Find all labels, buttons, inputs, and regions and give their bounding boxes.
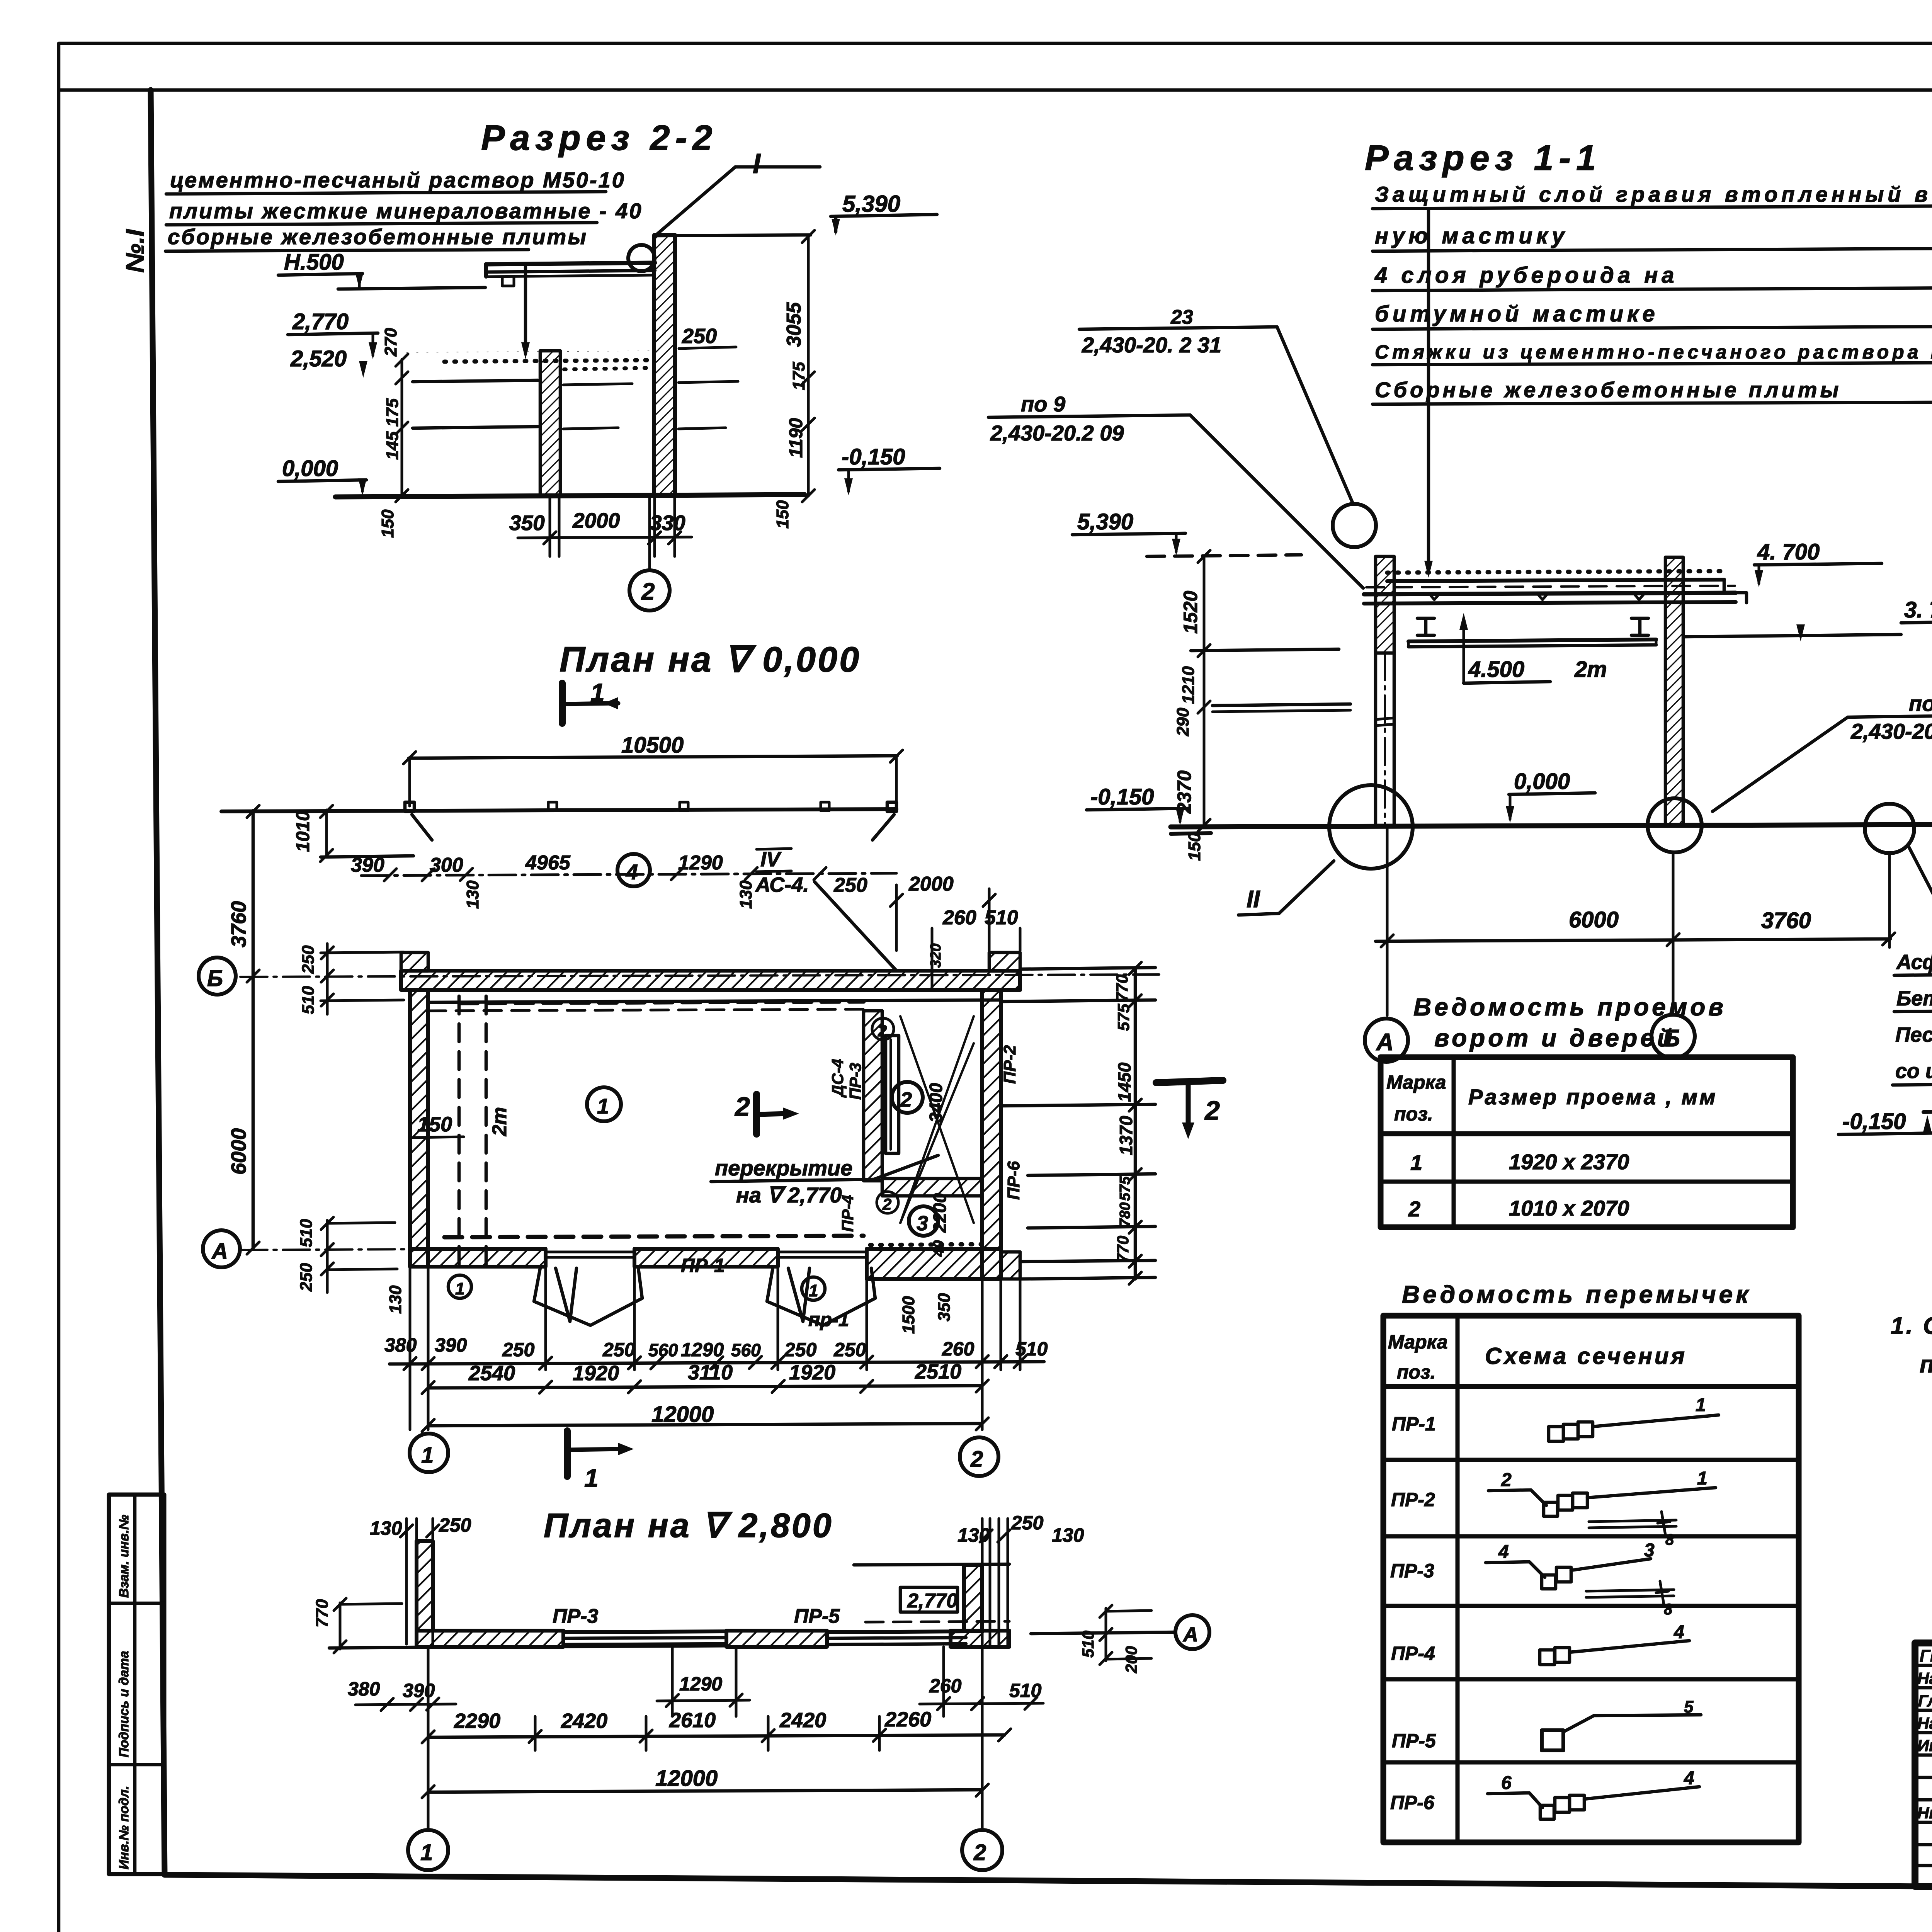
svg-text:390: 390 (435, 1334, 467, 1356)
svg-text:40: 40 (931, 1240, 947, 1257)
svg-text:Нач.гр.: Нач.гр. (1917, 1714, 1932, 1732)
section mark 1 bottom (567, 1431, 634, 1492)
roof slab sec11 (1364, 571, 1747, 604)
detail II elevation -0.150 (1838, 1109, 1932, 1134)
axis B dashdot (240, 975, 1159, 977)
right dim column sec22 (773, 230, 815, 529)
lintel row PR-1 (1392, 1395, 1719, 1441)
svg-text:3: 3 (1644, 1540, 1655, 1561)
elevation 3.702 (1685, 597, 1932, 641)
left dim column (378, 328, 408, 538)
svg-text:План на ∇ 0,000: План на ∇ 0,000 (560, 640, 861, 679)
axis bubble 1 plan0 (410, 1434, 448, 1472)
roof note L1 (1372, 182, 1932, 209)
axis drop lines (1387, 827, 1889, 1015)
svg-text:по 9: по 9 (1021, 392, 1065, 416)
svg-text:4: 4 (1673, 1622, 1684, 1643)
dim 1010 (293, 805, 413, 862)
svg-text:2610: 2610 (669, 1709, 716, 1732)
bottom dim row B (422, 1360, 988, 1394)
svg-text:Стяжки из цементно-песчаного р: Стяжки из цементно-песчаного раствора М5… (1375, 341, 1932, 363)
svg-text:2,770: 2,770 (292, 309, 349, 334)
svg-text:2000: 2000 (572, 509, 620, 532)
level 0.000 sec22 (278, 456, 367, 495)
svg-text:2: 2 (641, 578, 655, 605)
svg-text:5,390: 5,390 (1077, 509, 1133, 534)
left small dims B (299, 944, 404, 1014)
door cross marks (900, 1016, 974, 1223)
svg-text:770: 770 (1114, 1236, 1132, 1263)
lintel row PR-2 (1391, 1468, 1716, 1548)
insulation dotted band (406, 351, 652, 369)
svg-text:2: 2 (882, 1195, 891, 1213)
svg-text:6: 6 (1501, 1773, 1512, 1793)
svg-text:со щебнем: со щебнем (1895, 1060, 1932, 1083)
detail circle B (1648, 798, 1702, 852)
svg-text:2260: 2260 (884, 1708, 931, 1731)
detail circle II on ground (1329, 785, 1413, 869)
svg-text:1010: 1010 (293, 811, 313, 852)
svg-text:Разрез 2-2: Разрез 2-2 (481, 118, 718, 158)
svg-text:1: 1 (590, 678, 605, 707)
svg-text:на ∇ 2,770: на ∇ 2,770 (736, 1183, 842, 1207)
svg-text:12000: 12000 (655, 1766, 718, 1791)
right dim chain (1000, 962, 1141, 1284)
svg-text:Нач.отд: Нач.отд (1917, 1669, 1932, 1687)
left stamp strip (109, 1495, 164, 1874)
svg-text:Разрез 1-1: Разрез 1-1 (1365, 138, 1601, 178)
plan28 right corner (854, 1519, 1009, 1645)
svg-text:II: II (1247, 886, 1260, 913)
svg-text:ную мастику: ную мастику (1375, 223, 1568, 248)
right outer wall (982, 990, 1020, 1279)
svg-text:№.I: №.I (121, 229, 149, 273)
inner wall hatched (540, 351, 560, 496)
svg-text:2: 2 (878, 1022, 887, 1040)
door opening 1 (534, 1252, 642, 1325)
crane I-beams (1417, 618, 1648, 635)
elevation -0.150 sec22 (838, 444, 940, 495)
svg-text:130: 130 (463, 880, 482, 909)
bottom wall band seg1 (410, 1249, 546, 1267)
svg-text:1010 х 2070: 1010 х 2070 (1509, 1196, 1629, 1220)
svg-text:АС-4.: АС-4. (755, 873, 809, 896)
svg-text:4: 4 (1684, 1768, 1694, 1789)
level 2.520 (290, 346, 367, 378)
svg-text:по 7: по 7 (1909, 691, 1932, 716)
svg-text:Марка: Марка (1386, 1071, 1446, 1093)
svg-text:260: 260 (929, 1675, 962, 1697)
svg-text:350: 350 (509, 511, 545, 535)
svg-text:Н.500: Н.500 (284, 250, 344, 275)
roof note L6 (1372, 378, 1932, 404)
roof level line (657, 235, 811, 236)
svg-text:перекрытие: перекрытие (715, 1156, 852, 1180)
svg-text:Б: Б (207, 966, 223, 991)
svg-text:3400: 3400 (926, 1083, 946, 1122)
crane runway line (1408, 639, 1656, 647)
svg-text:10500: 10500 (621, 733, 684, 758)
top band line (59, 88, 1932, 92)
left dim column sec11 (1173, 550, 1210, 861)
svg-text:поз.: поз. (1397, 1361, 1436, 1383)
svg-text:1: 1 (1696, 1395, 1706, 1415)
svg-text:1: 1 (1410, 1150, 1422, 1175)
svg-text:-0,150: -0,150 (842, 444, 905, 469)
roofing note line 3 (165, 224, 588, 251)
lintel table lines (1383, 1316, 1799, 1842)
svg-text:130: 130 (736, 880, 755, 909)
plan28 dim 12000 (422, 1647, 988, 1830)
svg-text:Гл.арх.: Гл.арх. (1918, 1692, 1932, 1710)
callout po7 (1713, 691, 1932, 811)
left wall band (410, 990, 428, 1267)
svg-text:145 175: 145 175 (383, 398, 402, 460)
svg-text:Инж.Вк: Инж.Вк (1917, 1736, 1932, 1755)
elevation 0.000 sec11 (1506, 769, 1595, 823)
ground line sec22 (335, 495, 804, 497)
lintel row PR-4 (1391, 1622, 1689, 1665)
pos bubble 2b (877, 1192, 898, 1213)
openings table frame (1381, 1057, 1793, 1227)
svg-text:770: 770 (1113, 975, 1131, 1002)
top level line sec11 (1147, 555, 1301, 556)
svg-text:380: 380 (348, 1678, 380, 1700)
svg-text:4: 4 (1498, 1542, 1509, 1562)
roof note L2 (1372, 223, 1932, 251)
callout circle roof (1333, 504, 1376, 547)
svg-text:ПР-2: ПР-2 (1391, 1489, 1435, 1510)
callout I (656, 148, 820, 235)
svg-text:1290: 1290 (678, 852, 723, 874)
door opening 2 (767, 1252, 875, 1325)
roofing note line 2 (166, 199, 643, 225)
svg-text:ПР-3: ПР-3 (846, 1063, 864, 1100)
svg-text:250: 250 (297, 1263, 316, 1292)
svg-text:Ведомость проемов: Ведомость проемов (1413, 993, 1726, 1021)
plan28 dims row1 (348, 1647, 1043, 1716)
roof note L4 (1372, 301, 1932, 329)
parapet beam (486, 263, 655, 286)
insulation leader (521, 267, 530, 359)
roofing note line 1 (166, 168, 626, 194)
svg-text:3. 702: 3. 702 (1904, 597, 1932, 622)
svg-text:А: А (211, 1239, 228, 1264)
opening bubble 1a (448, 1275, 471, 1298)
roof note L5 (1372, 341, 1932, 365)
label II (1238, 861, 1334, 915)
svg-text:ПР-3: ПР-3 (553, 1605, 598, 1628)
right ledger lines (1001, 968, 1155, 1279)
svg-text:Инв.№ подл.: Инв.№ подл. (117, 1786, 131, 1869)
svg-text:1: 1 (421, 1443, 434, 1468)
plan0 top dims (351, 852, 896, 909)
svg-text:23: 23 (1170, 306, 1193, 328)
svg-text:Подпись и дата: Подпись и дата (117, 1651, 131, 1757)
svg-text:ПР-4: ПР-4 (1391, 1643, 1435, 1664)
svg-text:2: 2 (1408, 1197, 1420, 1221)
axis bubble A plan (203, 1230, 240, 1267)
elevation 5.390 (831, 191, 937, 236)
crane wheel (628, 245, 655, 271)
section mark 2 right (1156, 1080, 1223, 1139)
right column sec11 (1665, 557, 1683, 825)
svg-text:2420: 2420 (561, 1709, 607, 1733)
openings table title (1413, 993, 1726, 1052)
svg-text:0,000: 0,000 (282, 456, 338, 481)
svg-text:150: 150 (378, 509, 397, 538)
lintel row PR-5 (1392, 1697, 1701, 1752)
svg-text:130: 130 (386, 1285, 405, 1314)
perekrytie label (711, 1155, 938, 1207)
svg-text:250: 250 (1011, 1512, 1044, 1534)
svg-text:-0,150: -0,150 (1090, 784, 1154, 810)
openings row2 (1408, 1196, 1629, 1221)
svg-text:2: 2 (973, 1840, 986, 1865)
section mark 2 left (734, 1092, 799, 1134)
ledger lines left sec11 (1191, 649, 1350, 712)
lintel table frame (1383, 1316, 1799, 1842)
signature roles (1917, 1646, 1932, 1822)
svg-text:2,520: 2,520 (290, 346, 347, 371)
left small dims A (297, 1217, 397, 1293)
svg-text:ПР-5: ПР-5 (794, 1605, 840, 1628)
svg-text:2,430-20,1: 2,430-20,1 (1850, 719, 1932, 743)
plan28 dims top left (370, 1514, 471, 1644)
svg-text:ПР-2: ПР-2 (1000, 1045, 1019, 1084)
svg-text:560: 560 (731, 1340, 761, 1360)
svg-text:ДС-4: ДС-4 (828, 1059, 847, 1098)
svg-text:3760: 3760 (227, 901, 250, 947)
svg-text:Взам. инв.№: Взам. инв.№ (117, 1515, 131, 1598)
detail II note L4 (1893, 973, 1932, 1097)
axis A dashdot (240, 1249, 410, 1250)
axis bubble 1 plan28 (408, 1830, 448, 1870)
G-DET23 (199, 640, 1223, 1492)
elevation 4.700 (1754, 539, 1882, 587)
signature table rows (1915, 1665, 1932, 1866)
svg-text:290: 290 (1173, 707, 1192, 736)
svg-text:проемов см. лист АС-3.: проемов см. лист АС-3. (1920, 1351, 1932, 1378)
IV AC-4 callout (755, 848, 896, 971)
svg-text:2510: 2510 (915, 1360, 961, 1383)
svg-text:1: 1 (597, 1094, 609, 1118)
svg-text:2: 2 (970, 1447, 983, 1472)
axis bubble 2 plan28 (962, 1830, 1002, 1870)
rotated labels right block (386, 944, 954, 1334)
svg-text:4965: 4965 (525, 852, 571, 874)
svg-text:1: 1 (809, 1281, 818, 1300)
svg-text:390: 390 (351, 854, 384, 876)
svg-text:3: 3 (917, 1212, 928, 1235)
dotted sill (870, 1244, 981, 1245)
callout po9 (988, 392, 1363, 588)
svg-text:2540: 2540 (468, 1362, 515, 1385)
svg-text:5: 5 (1684, 1697, 1694, 1716)
dim 10500 (403, 733, 903, 806)
label 150 (412, 1113, 464, 1138)
left column sec11 (1376, 556, 1394, 825)
dim 250 2000 (833, 873, 1020, 989)
svg-text:260: 260 (942, 906, 976, 929)
roof note L3 (1372, 263, 1932, 291)
svg-text:ПР-1: ПР-1 (681, 1255, 725, 1276)
svg-text:510: 510 (985, 906, 1018, 929)
detail II note L1 (1894, 951, 1932, 975)
svg-text:510: 510 (297, 1219, 316, 1247)
svg-text:ПР-5: ПР-5 (1392, 1730, 1436, 1752)
G-DET1 (1838, 913, 1932, 1298)
plan28 dims top right (957, 1512, 1084, 1644)
svg-text:8: 8 (1665, 1531, 1674, 1548)
label 250 (679, 325, 736, 349)
svg-text:130: 130 (1052, 1524, 1084, 1546)
svg-text:300: 300 (430, 854, 463, 876)
svg-text:250: 250 (833, 874, 867, 896)
elevation 5.390 sec11 (1072, 509, 1185, 556)
svg-text:3760: 3760 (1761, 908, 1811, 933)
top wall band (401, 952, 1020, 990)
svg-text:Песок утрамбованный: Песок утрамбованный (1895, 1023, 1932, 1046)
svg-text:Схема сечения: Схема сечения (1485, 1343, 1687, 1369)
bottom dim sec22 (509, 496, 692, 556)
svg-text:ворот и дверей: ворот и дверей (1434, 1024, 1675, 1052)
svg-text:1210: 1210 (1179, 666, 1198, 704)
bottom wall band seg2 (634, 1249, 778, 1267)
svg-text:130: 130 (370, 1517, 402, 1539)
axis A line plan28 (1031, 1605, 1209, 1673)
svg-text:2т: 2т (488, 1107, 511, 1136)
svg-text:2420: 2420 (779, 1709, 826, 1732)
svg-text:1450: 1450 (1114, 1062, 1134, 1102)
G-SEC22 (988, 138, 1932, 1062)
bottom dim 12000 (422, 1402, 988, 1432)
lintel header (1388, 1331, 1687, 1383)
level H.500 (278, 250, 364, 289)
svg-text:250: 250 (299, 945, 318, 974)
svg-text:260: 260 (942, 1338, 975, 1360)
openings header (1386, 1071, 1718, 1125)
bottom dim row A (384, 1334, 1048, 1370)
bottom wall band seg3 (867, 1249, 1001, 1279)
platform edge (221, 802, 896, 840)
wall axis2 hatched (654, 235, 675, 496)
svg-text:2: 2 (1501, 1470, 1512, 1490)
axis bubble B sec11 (1651, 1015, 1695, 1058)
svg-text:сборные железобетонные плиты: сборные железобетонные плиты (168, 224, 588, 249)
svg-text:ПР-1: ПР-1 (1392, 1413, 1436, 1435)
plan28 wall band (417, 1631, 1009, 1647)
svg-text:2: 2 (1204, 1095, 1220, 1126)
detail II note L3 (1895, 1023, 1932, 1046)
boxed 2.770 (866, 1587, 1009, 1622)
svg-text:250: 250 (682, 325, 717, 348)
svg-text:Сборные железобетонные плиты: Сборные железобетонные плиты (1375, 378, 1842, 402)
svg-text:1920: 1920 (789, 1361, 835, 1384)
pos bubble 2a (872, 1018, 894, 1040)
svg-text:320: 320 (928, 944, 944, 968)
dim line 6000 3760 (1376, 907, 1895, 947)
svg-text:ПР-6: ПР-6 (1390, 1792, 1435, 1813)
svg-text:1920 х 2370: 1920 х 2370 (1509, 1150, 1629, 1174)
svg-text:4.500: 4.500 (1468, 657, 1524, 682)
svg-text:Бетон В 15: Бетон В 15 (1896, 987, 1932, 1010)
title block frame (1915, 1643, 1932, 1886)
svg-text:ПР-4: ПР-4 (838, 1195, 857, 1232)
svg-text:575: 575 (1117, 1176, 1133, 1201)
closet element (886, 1036, 899, 1153)
lintel row PR-3 (1390, 1540, 1674, 1618)
room bubble 3 (909, 1206, 938, 1236)
svg-text:2т: 2т (1574, 657, 1607, 682)
svg-text:175: 175 (789, 362, 808, 390)
svg-text:1370: 1370 (1116, 1116, 1136, 1155)
svg-text:1520: 1520 (1180, 591, 1201, 634)
interior face line (428, 1000, 1001, 1011)
svg-text:4. 700: 4. 700 (1757, 539, 1820, 565)
axis bubble 2 plan0 (960, 1437, 998, 1476)
svg-text:770: 770 (313, 1599, 332, 1628)
svg-text:поз.: поз. (1394, 1103, 1433, 1125)
svg-text:битумной мастике: битумной мастике (1375, 301, 1659, 327)
svg-text:1: 1 (584, 1464, 599, 1492)
axis bubble 2 sec22 (629, 496, 670, 611)
detail II road section (1923, 1102, 1932, 1137)
interior partition vertical (864, 1011, 882, 1181)
svg-text:1190: 1190 (786, 418, 806, 458)
svg-text:-0,150: -0,150 (1842, 1109, 1906, 1134)
svg-text:ПР-6: ПР-6 (1004, 1161, 1023, 1200)
svg-text:Нконтр: Нконтр (1917, 1804, 1932, 1822)
interior ledger lines (413, 380, 738, 429)
lintel row PR-6 (1390, 1768, 1699, 1819)
room bubble 2 (892, 1082, 923, 1113)
svg-text:цементно-песчаный раствор М50-: цементно-песчаный раствор М50-10 (170, 168, 626, 192)
svg-text:3110: 3110 (688, 1361, 733, 1384)
svg-text:1: 1 (1697, 1468, 1708, 1489)
svg-text:575: 575 (1114, 1003, 1133, 1031)
svg-text:1920: 1920 (573, 1362, 619, 1385)
svg-text:пр-1: пр-1 (808, 1309, 849, 1330)
openings row1 (1410, 1150, 1629, 1175)
svg-text:1290: 1290 (679, 1673, 722, 1695)
ground line sec11 (1171, 825, 1932, 834)
svg-text:6000: 6000 (227, 1128, 250, 1175)
svg-text:ГИП: ГИП (1920, 1646, 1932, 1665)
svg-text:8: 8 (1664, 1601, 1673, 1618)
svg-text:0,000: 0,000 (1514, 769, 1570, 794)
svg-text:2,430-20.2 09: 2,430-20.2 09 (990, 421, 1124, 445)
detail circle III (1865, 804, 1914, 853)
svg-text:2200: 2200 (930, 1193, 950, 1233)
level 2.770 (288, 309, 378, 359)
svg-text:1. Спецификации элементов пере: 1. Спецификации элементов перемычек и за… (1891, 1313, 1932, 1339)
svg-text:2: 2 (900, 1088, 912, 1111)
roof note leader (1424, 209, 1433, 578)
svg-text:План на ∇ 2,800: План на ∇ 2,800 (544, 1506, 833, 1544)
svg-text:330: 330 (650, 511, 685, 535)
svg-text:1290: 1290 (681, 1339, 724, 1361)
G-TABLES (1891, 1313, 1932, 1378)
plan28 left wall corner (417, 1541, 433, 1631)
room bubble 1 (587, 1087, 621, 1121)
label III (1908, 845, 1932, 953)
svg-text:Асфальтобетон: Асфальтобетон (1896, 951, 1932, 974)
interior partition horizontal (882, 1179, 982, 1196)
elevation -0.150 left sec11 (1087, 784, 1189, 825)
svg-text:IV: IV (760, 848, 782, 871)
svg-text:150: 150 (417, 1113, 452, 1136)
